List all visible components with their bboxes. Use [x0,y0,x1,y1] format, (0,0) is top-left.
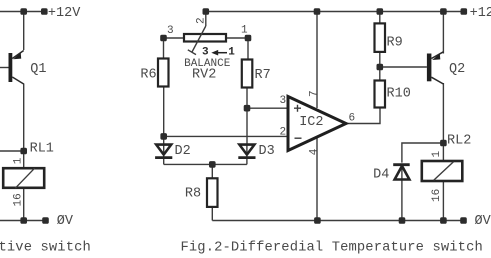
diode D2 [155,145,172,158]
wire main top rail [206,11,464,13]
svg-text:2: 2 [280,127,287,139]
diode D4 [393,165,410,180]
wire node3 to R6 [163,38,165,59]
wire R9 top [379,12,381,24]
resistor R8 [207,178,218,207]
op-amp IC2 [288,97,346,151]
node R9 rail junction [377,8,384,15]
node +12V right terminal [461,8,468,15]
svg-text:R8: R8 [185,187,201,202]
svg-text:R9: R9 [387,35,403,50]
svg-text:IC2: IC2 [299,115,323,130]
node RV2 pin3 [160,35,167,42]
wire RV2 wiper vertical [205,12,207,27]
wire left stub at RL1 node [0,150,24,152]
node +12V left terminal [41,8,48,15]
wire Q2 base [380,66,427,68]
svg-text:+12V: +12V [48,6,81,21]
node R8 top junction [209,161,216,168]
node RV2 wiper top [203,8,210,15]
wire R6 to D2 node [163,87,165,144]
svg-text:3: 3 [202,47,209,59]
resistor R6 [158,59,169,87]
svg-text:ØV: ØV [475,214,491,229]
wire RV2 right lead [226,37,248,39]
wire main bottom rail [212,220,463,222]
wire Q1 collector vertical [23,84,25,169]
svg-text:RV2: RV2 [192,68,216,83]
wire Q2 collector vertical [442,83,444,160]
wire left bottom rail [0,220,46,222]
svg-text:Fig.2-Differedial Temperature: Fig.2-Differedial Temperature switch [181,239,483,255]
wire inverting input [164,135,287,137]
svg-text:Q2: Q2 [449,62,465,77]
svg-text:D4: D4 [373,168,389,183]
svg-text:D3: D3 [259,144,275,159]
node pin7 rail junction [314,8,321,15]
node R7-D3 junction [244,105,251,112]
node 0V left junction [20,217,27,224]
svg-text:16: 16 [13,193,25,206]
node 0V right terminal [460,217,467,224]
node Q2 emitter rail junction [440,8,447,15]
wire D2 cathode [163,156,165,164]
resistor R9 [375,23,386,52]
svg-text:3: 3 [167,25,174,37]
node RV2 pin1 [245,35,252,42]
svg-text:RL2: RL2 [447,134,471,149]
transistor Q2 [427,52,444,84]
node +12V left junction [20,8,27,15]
label rotation 3 arrow 1 [202,47,235,59]
resistor R10 [375,81,386,108]
diode D3 [238,145,255,158]
svg-text:R6: R6 [140,67,156,82]
potentiometer RV2 [184,26,226,55]
wire node to D4 [402,143,444,163]
svg-text:D2: D2 [175,144,191,159]
node D4 rail junction [399,217,406,224]
wire RL2 bottom [442,182,444,221]
wire IC2 output pin6 [347,108,381,124]
svg-text:2: 2 [196,17,208,24]
wire non-inverting input [247,107,287,109]
wire Q1 base [0,67,9,69]
wire D4 internal [401,165,403,181]
svg-text:Q1: Q1 [30,62,46,77]
relay RL1 [3,168,44,188]
node RL2 rail junction [440,217,447,224]
svg-text:4: 4 [308,148,320,155]
node R6-D2 junction [160,133,167,140]
wire D3 cathode [246,156,248,164]
node Q2 collector RL2 junction [440,140,447,147]
wire R9-R10 link [379,52,381,81]
svg-text:RL1: RL1 [30,142,54,157]
wire R8 to bottom rail [211,207,213,221]
wire node1 to R7 [247,38,249,60]
wire D3 internal [246,144,248,155]
svg-text:1: 1 [13,157,25,164]
wire left top rail [0,11,44,13]
wire RV2 left lead [164,37,185,39]
svg-text:R10: R10 [387,86,411,101]
svg-text:tive switch: tive switch [0,239,91,255]
wire RL1 to 0V [23,189,25,221]
svg-text:1: 1 [431,151,443,158]
svg-text:+12V: +12V [470,6,491,21]
svg-text:16: 16 [431,189,443,202]
wire Q1 emitter vertical [23,12,25,51]
node 0V left terminal [42,217,49,224]
relay RL2 [422,161,463,181]
transistor Q1 [9,51,24,85]
svg-text:6: 6 [349,113,356,125]
svg-text:R7: R7 [255,68,271,83]
wire R7 to node [246,88,248,144]
resistor R7 [242,60,253,88]
wire D2 internal [163,144,165,155]
node R9-R10-base junction [377,64,384,71]
wire D2-D3 junction bar [164,163,247,165]
wire D4 anode to rail [401,181,403,221]
wire Q2 emitter vertical [442,12,444,54]
wire node to R8 [211,164,213,178]
svg-text:ØV: ØV [57,214,74,229]
node pin4 rail junction [314,217,321,224]
wire IC2 pin4 [316,138,318,221]
wire IC2 pin7 [316,12,318,109]
svg-text:1: 1 [228,47,235,59]
svg-text:7: 7 [308,90,320,97]
node RL1 top junction [20,148,27,155]
svg-text:3: 3 [280,95,287,107]
